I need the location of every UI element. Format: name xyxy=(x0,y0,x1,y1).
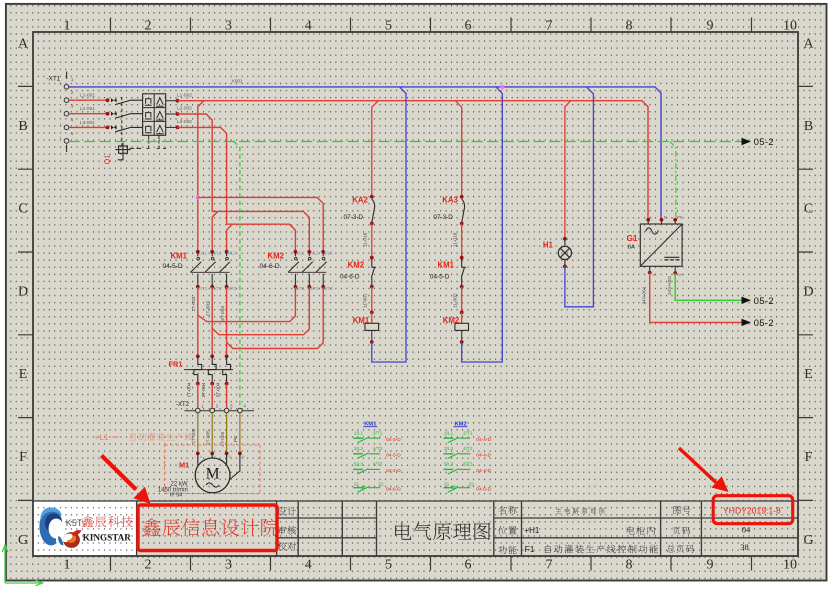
svg-text:24V+001: 24V+001 xyxy=(667,275,673,295)
svg-text:3/L2: 3/L2 xyxy=(354,446,364,452)
svg-text:2: 2 xyxy=(145,19,152,34)
svg-text:9: 9 xyxy=(707,558,714,573)
contactor KM2 main contacts xyxy=(260,250,334,291)
red highlight box around company name xyxy=(138,505,277,551)
red annotation arrow to drawing number xyxy=(679,448,716,483)
svg-text:10: 10 xyxy=(783,558,797,573)
svg-text:KM2: KM2 xyxy=(443,316,460,325)
title block grid lines xyxy=(33,501,798,556)
svg-text:4: 4 xyxy=(305,558,312,573)
svg-text:1: 1 xyxy=(60,95,62,99)
svg-text:04-6-D: 04-6-D xyxy=(340,273,360,280)
svg-text:22: 22 xyxy=(378,481,384,487)
cell value 主电路原理图 xyxy=(556,508,605,514)
svg-text:+L1: +L1 xyxy=(95,433,109,442)
svg-text:2: 2 xyxy=(216,403,219,408)
circuit breaker Q1 box xyxy=(103,94,167,165)
svg-text:W: W xyxy=(228,455,232,459)
svg-text:A: A xyxy=(18,37,29,52)
svg-text:A: A xyxy=(803,37,814,52)
svg-text:5/L3: 5/L3 xyxy=(444,462,454,468)
svg-text:10: 10 xyxy=(783,19,797,34)
svg-text:B: B xyxy=(18,119,27,134)
svg-text:4: 4 xyxy=(71,117,74,123)
title block labels 设计/审核/校对 xyxy=(277,507,296,516)
svg-text:Q1: Q1 xyxy=(103,154,112,164)
svg-text:04-3-D: 04-3-D xyxy=(386,453,401,459)
svg-text:21: 21 xyxy=(444,481,450,487)
svg-text:PE: PE xyxy=(677,216,683,220)
svg-text:KM1: KM1 xyxy=(353,316,370,325)
wires L1-002 L2-002 L3-002 out of Q1 xyxy=(166,100,178,102)
svg-text:3/L2: 3/L2 xyxy=(444,446,454,452)
svg-text:07-3-D: 07-3-D xyxy=(433,214,453,221)
Q1 shunt trip box with cross xyxy=(119,146,128,153)
svg-text:M1: M1 xyxy=(179,461,189,470)
svg-text:2: 2 xyxy=(145,558,152,573)
svg-text:4/T2: 4/T2 xyxy=(373,446,383,452)
svg-text:L1-001: L1-001 xyxy=(80,93,95,99)
svg-text:1: 1 xyxy=(71,77,74,83)
svg-text:04-6-D: 04-6-D xyxy=(386,487,401,493)
node junction on N rail (magenta) xyxy=(500,85,504,89)
svg-text:04-6-D: 04-6-D xyxy=(260,263,280,270)
PE tap to G1 xyxy=(670,142,676,224)
svg-text:L2-002: L2-002 xyxy=(177,106,192,112)
svg-text:2T-003: 2T-003 xyxy=(206,301,212,316)
svg-text:3T-005: 3T-005 xyxy=(220,431,226,446)
svg-text:3: 3 xyxy=(71,104,74,110)
svg-text:KM2: KM2 xyxy=(348,261,365,270)
svg-text:D: D xyxy=(803,285,813,300)
thermal overload relay FR1 xyxy=(169,354,234,385)
svg-text:8: 8 xyxy=(626,19,633,34)
motor M1 xyxy=(158,453,245,498)
svg-text:B: B xyxy=(804,119,813,134)
wire branch to KM2 pole3 xyxy=(198,197,323,251)
svg-text:4/T2: 4/T2 xyxy=(463,446,473,452)
svg-text:X001: X001 xyxy=(232,79,244,85)
svg-text:1: 1 xyxy=(60,109,62,113)
return wire (blue) to N rail xyxy=(462,87,503,362)
svg-text:3/L2: 3/L2 xyxy=(310,251,319,256)
svg-text:U: U xyxy=(200,455,203,459)
svg-text:KA2: KA2 xyxy=(352,196,368,205)
svg-text:8A: 8A xyxy=(628,244,635,250)
svg-text:05-2: 05-2 xyxy=(754,296,774,306)
svg-text:5: 5 xyxy=(71,131,74,137)
svg-text:1/L1: 1/L1 xyxy=(444,430,454,436)
svg-text:L3-002: L3-002 xyxy=(177,119,192,125)
svg-text:04-3-D: 04-3-D xyxy=(386,468,401,474)
contactor coil KM2 xyxy=(461,312,463,323)
connector + breaker blade xyxy=(111,98,114,102)
svg-text:5: 5 xyxy=(385,19,392,34)
indicator lamp H1 branch xyxy=(543,87,594,306)
Q1 trip linkage dashes xyxy=(121,97,123,147)
svg-text:04-5-D: 04-5-D xyxy=(163,263,183,270)
svg-text:1: 1 xyxy=(60,136,62,140)
company name 鑫辰信息设计院 (red, highlighted) xyxy=(143,518,279,536)
svg-text:F1: F1 xyxy=(525,544,535,554)
wire 24V- out to 05-2 xyxy=(650,273,742,323)
svg-text:K5T: K5T xyxy=(66,518,83,528)
red highlight box around drawing number xyxy=(713,496,793,524)
svg-text:11-016: 11-016 xyxy=(363,232,369,247)
title 电气原理图 xyxy=(395,523,490,541)
wire 24V+ out to 05-2 xyxy=(675,273,741,300)
svg-text:38: 38 xyxy=(740,542,749,552)
svg-text:F: F xyxy=(19,450,27,465)
wire PE rail (green dashed) xyxy=(69,141,742,143)
wire L3 to KM1 pole3 and KM2 pole1 xyxy=(178,127,296,251)
svg-text:3T-004: 3T-004 xyxy=(215,382,221,397)
svg-text:04-4-D: 04-4-D xyxy=(476,437,491,443)
terminal strip -XT1 xyxy=(47,72,74,153)
svg-text:E: E xyxy=(19,367,28,382)
svg-text:6/T3: 6/T3 xyxy=(324,286,333,291)
svg-text:05-2: 05-2 xyxy=(754,318,774,328)
svg-text:PE: PE xyxy=(233,436,239,442)
svg-text:1/L1: 1/L1 xyxy=(296,251,305,256)
svg-text:E: E xyxy=(804,367,813,382)
svg-text:H1: H1 xyxy=(543,240,554,249)
contact cross-reference table KM1 xyxy=(353,422,401,493)
contact cross-reference table KM2 xyxy=(444,422,492,493)
svg-text:3T-003: 3T-003 xyxy=(220,306,226,321)
svg-text:1: 1 xyxy=(64,19,71,34)
svg-text:L: L xyxy=(650,216,652,220)
connector + breaker blade xyxy=(111,112,114,116)
svg-text:G: G xyxy=(803,533,813,548)
svg-text:M: M xyxy=(206,466,220,483)
svg-text:YHDY2019:1-8: YHDY2019:1-8 xyxy=(723,505,781,515)
svg-text:6/T3: 6/T3 xyxy=(227,286,236,291)
svg-text:04-4-D: 04-4-D xyxy=(476,453,491,459)
svg-text:9: 9 xyxy=(707,19,714,34)
svg-text:4: 4 xyxy=(243,403,246,408)
svg-text:2/T1: 2/T1 xyxy=(463,430,473,436)
svg-text:KM1: KM1 xyxy=(171,251,188,260)
svg-text:-XT1: -XT1 xyxy=(47,76,61,83)
wire N (blue) top rail X001 xyxy=(69,87,661,222)
logo cell white background xyxy=(33,501,137,556)
structure box +L1 (salmon dashed) xyxy=(165,445,261,494)
svg-text:3/L2: 3/L2 xyxy=(213,251,222,256)
svg-text:KA3: KA3 xyxy=(442,196,458,205)
svg-text:04-5-D: 04-5-D xyxy=(430,273,450,280)
svg-text:7: 7 xyxy=(546,558,553,573)
svg-text:04: 04 xyxy=(742,524,751,534)
svg-text:04-3-D: 04-3-D xyxy=(386,437,401,443)
svg-text:4/T2: 4/T2 xyxy=(310,286,319,291)
svg-text:8: 8 xyxy=(626,558,633,573)
svg-text:3: 3 xyxy=(225,19,232,34)
svg-text:L1-002: L1-002 xyxy=(177,92,192,98)
wire L2 to KM1 pole2 and KM2 pole2 xyxy=(178,114,310,252)
svg-text:05-2: 05-2 xyxy=(754,137,774,147)
connector + breaker blade xyxy=(111,125,114,129)
svg-text:D: D xyxy=(18,285,28,300)
svg-text:KM1: KM1 xyxy=(438,261,455,270)
svg-text:1T-005: 1T-005 xyxy=(191,428,197,443)
red annotation arrow to company name xyxy=(102,456,137,490)
svg-text:04-4-D: 04-4-D xyxy=(476,468,491,474)
svg-text:11-002: 11-002 xyxy=(453,293,459,308)
contactor KM1 main contacts xyxy=(163,250,237,291)
svg-text:G: G xyxy=(18,533,28,548)
control branch KM2 feed riser xyxy=(455,101,462,197)
svg-text:F: F xyxy=(805,450,813,465)
svg-text:7: 7 xyxy=(546,19,553,34)
svg-text:1: 1 xyxy=(201,403,204,408)
svg-text:-XT2: -XT2 xyxy=(176,402,190,408)
svg-text:C: C xyxy=(18,202,27,217)
svg-text:3: 3 xyxy=(225,558,232,573)
svg-text:L3-001: L3-001 xyxy=(80,120,95,126)
svg-text:6/T3: 6/T3 xyxy=(463,462,473,468)
NC auxiliary contact KM1 xyxy=(461,260,466,287)
svg-text:2T-004: 2T-004 xyxy=(201,382,207,397)
wires KM1 outputs down to FR1 xyxy=(197,287,199,357)
company logo: red bird swoosh xyxy=(62,530,82,548)
relay contact KA3 xyxy=(462,199,465,223)
svg-text:4: 4 xyxy=(305,19,312,34)
svg-text:21: 21 xyxy=(354,481,360,487)
control branch KM1 feed riser xyxy=(372,101,379,197)
contactor coil KM1 xyxy=(371,312,373,323)
svg-text:1/L1: 1/L1 xyxy=(354,430,364,436)
svg-text:1T-004: 1T-004 xyxy=(187,382,193,397)
svg-text:N: N xyxy=(664,216,667,220)
svg-text:M: M xyxy=(242,455,245,459)
svg-text:1: 1 xyxy=(64,558,71,573)
svg-text:V+: V+ xyxy=(679,273,685,277)
svg-text:6: 6 xyxy=(465,19,472,34)
svg-text:11-001: 11-001 xyxy=(363,293,369,308)
svg-text:2/T1: 2/T1 xyxy=(296,286,305,291)
svg-text:2T-005: 2T-005 xyxy=(206,430,212,445)
power supply G1 xyxy=(627,142,775,329)
svg-text:5: 5 xyxy=(385,558,392,573)
company logo: blue swirl xyxy=(39,508,64,546)
svg-text:L2-001: L2-001 xyxy=(80,106,95,112)
wires KM2 outputs joining KM1 outputs xyxy=(198,287,296,322)
title block labels 名称/位置/功能 xyxy=(498,506,517,514)
svg-text:G1: G1 xyxy=(627,234,638,243)
row reference ticks left/right xyxy=(18,86,813,500)
svg-text:FR1: FR1 xyxy=(169,359,183,368)
PE drop from green rail to -XT2 xyxy=(234,142,240,409)
relay contact KA2 xyxy=(372,199,375,223)
svg-text:KM2: KM2 xyxy=(268,251,285,260)
svg-text:C: C xyxy=(804,202,813,217)
svg-text:6/T3: 6/T3 xyxy=(373,462,383,468)
wires L1-001 L2-001 L3-001 from -XT1 to Q1 xyxy=(69,99,108,101)
NC auxiliary contact KM2 xyxy=(371,260,376,287)
svg-text:3: 3 xyxy=(230,403,233,408)
svg-text:07-3-D: 07-3-D xyxy=(344,214,364,221)
node L1/KM2 branch (magenta) xyxy=(196,195,200,199)
return wire (blue) to N rail xyxy=(372,87,406,362)
title block labels 图号/页码/总页码 xyxy=(674,506,691,514)
column reference ticks top/bottom xyxy=(111,18,752,571)
svg-text:KINGSTAR: KINGSTAR xyxy=(83,532,132,542)
wires FR1 to -XT2 xyxy=(197,384,199,409)
svg-text:1: 1 xyxy=(60,122,62,126)
svg-text:5/L3: 5/L3 xyxy=(354,462,364,468)
svg-text:6: 6 xyxy=(465,558,472,573)
svg-text:5/L3: 5/L3 xyxy=(324,251,333,256)
svg-text:2/T1: 2/T1 xyxy=(373,430,383,436)
wire L1 drop to KM1 pole1 xyxy=(198,101,204,252)
terminal strip -XT2 xyxy=(176,402,254,413)
svg-text:22: 22 xyxy=(469,481,475,487)
wires -XT2 to motor xyxy=(197,413,199,453)
svg-text:4/T2: 4/T2 xyxy=(213,286,222,291)
green UCS axis icon bottom-left xyxy=(2,545,42,586)
svg-text:5/L3: 5/L3 xyxy=(227,251,236,256)
svg-text:11-018: 11-018 xyxy=(453,232,459,247)
svg-text:+H1: +H1 xyxy=(524,526,539,535)
off-page arrow 05-2 (PE) xyxy=(742,138,752,145)
svg-text:2: 2 xyxy=(71,90,74,96)
svg-text:1/L1: 1/L1 xyxy=(199,251,208,256)
svg-text:2/T1: 2/T1 xyxy=(199,286,208,291)
svg-text:1T-003: 1T-003 xyxy=(191,296,197,311)
svg-text:24V-001: 24V-001 xyxy=(641,286,647,304)
logo text 鑫辰科技 (red) xyxy=(82,516,133,527)
wire L1 rail to G1 xyxy=(178,101,649,222)
svg-text:04-5-D: 04-5-D xyxy=(476,487,491,493)
